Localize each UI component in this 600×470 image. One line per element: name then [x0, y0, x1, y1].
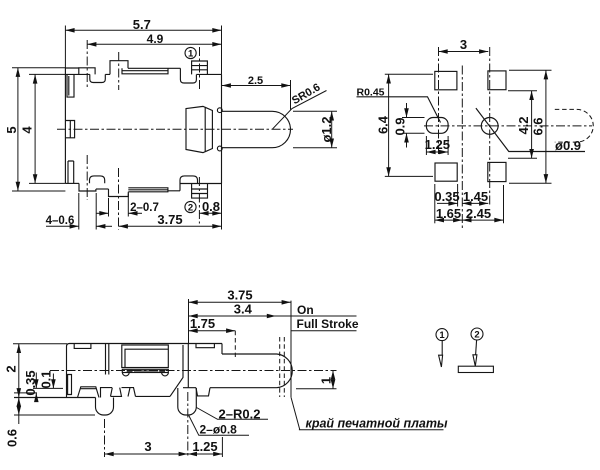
svg-text:4–0.6: 4–0.6 — [46, 215, 75, 227]
dim 3 side — [105, 453, 188, 455]
svg-text:2: 2 — [3, 365, 18, 372]
top seam right — [196, 344, 214, 348]
cover window — [122, 345, 169, 368]
mid seam vertical — [106, 344, 109, 375]
dim 0.8 — [221, 184, 223, 230]
dim 5.7 — [65, 26, 221, 75]
svg-text:SR0.6: SR0.6 — [290, 81, 322, 107]
svg-text:1.75: 1.75 — [190, 316, 215, 331]
slot under top lug — [90, 74, 106, 82]
dim 0.9 — [402, 118, 425, 134]
legend circled 2 — [458, 328, 493, 373]
foot A trapezoid — [78, 387, 100, 398]
bottom edge left — [65, 182, 79, 184]
centerline lug1 — [86, 40, 88, 88]
edge notch — [101, 388, 113, 398]
terminal 2 block — [192, 184, 208, 198]
side right edge — [221, 344, 223, 355]
round hole — [481, 118, 498, 135]
svg-text:5.7: 5.7 — [133, 17, 151, 32]
terminal 1 block — [192, 61, 208, 74]
side view centerline — [50, 371, 337, 458]
dim 1.25 side — [221, 437, 223, 457]
foot C — [128, 388, 136, 397]
top seam left — [74, 344, 91, 349]
bottom dome 2 — [180, 176, 198, 184]
side view texts — [3, 288, 448, 454]
bottom foot tab 2 — [109, 189, 129, 197]
top cover strip — [122, 68, 180, 74]
svg-text:1.65: 1.65 — [436, 206, 461, 221]
dim dia 1.2 — [293, 111, 337, 147]
svg-text:ø0.9: ø0.9 — [555, 138, 581, 153]
pin 1 — [96, 398, 114, 416]
dim 3.75 top view — [119, 225, 222, 227]
footprint texts — [357, 37, 582, 221]
bottom foot tab 1 — [79, 183, 96, 191]
svg-text:1: 1 — [188, 49, 194, 60]
centerline terminal 1 — [199, 47, 201, 91]
svg-text:ø1.2: ø1.2 — [319, 116, 334, 142]
centerline terminal 2 — [198, 177, 200, 224]
left inner slot middle — [66, 121, 75, 138]
svg-text:6.4: 6.4 — [376, 115, 391, 134]
dashed plunger projection — [555, 109, 593, 142]
svg-text:0.1: 0.1 — [39, 370, 54, 388]
svg-text:2: 2 — [188, 203, 193, 214]
plunger side view — [222, 354, 292, 388]
section divider — [187, 344, 189, 388]
body right edge — [221, 74, 223, 183]
diagonal corner — [170, 345, 183, 396]
svg-text:2–R0.2: 2–R0.2 — [219, 406, 261, 421]
svg-text:3: 3 — [144, 439, 151, 454]
left inner slot bottom — [68, 161, 74, 183]
dim 6.6 — [509, 70, 552, 183]
svg-text:1.25: 1.25 — [425, 137, 450, 152]
svg-text:5: 5 — [4, 126, 19, 133]
centerline bottom lug / 3.75 extension — [118, 168, 120, 230]
svg-text:1: 1 — [319, 377, 334, 384]
footprint centerlines — [424, 47, 592, 228]
side bottom left — [14, 397, 96, 399]
svg-text:0.35: 0.35 — [434, 189, 459, 204]
dim 0.35 footprint — [457, 184, 459, 207]
svg-text:0.8: 0.8 — [202, 199, 220, 214]
svg-text:3.75: 3.75 — [227, 288, 252, 303]
leader dia 0.9 — [476, 108, 585, 151]
circled 1 top view — [185, 47, 196, 58]
svg-text:1.25: 1.25 — [192, 439, 217, 454]
svg-text:4: 4 — [20, 126, 35, 134]
bottom edge segment 2 — [168, 184, 180, 191]
svg-text:2–ø0.8: 2–ø0.8 — [200, 423, 238, 437]
svg-text:0.35: 0.35 — [23, 370, 38, 395]
pad bottom-right — [488, 162, 506, 181]
dim 4 — [29, 74, 65, 183]
slot near terminal 1 — [180, 75, 196, 84]
bottom edge segment — [96, 188, 109, 190]
pad top-right — [488, 71, 506, 90]
dim 1.75 side — [189, 330, 236, 332]
svg-text:2: 2 — [474, 330, 479, 341]
dim 3 footprint — [439, 51, 489, 53]
mounting lug top-left — [79, 68, 95, 75]
dim 0.35 side — [14, 388, 63, 393]
dim 2.45 — [503, 185, 505, 223]
foot B — [111, 388, 131, 397]
dim 1.45 — [462, 202, 488, 204]
svg-text:6.6: 6.6 — [531, 117, 546, 135]
svg-text:On: On — [297, 303, 314, 317]
svg-text:1: 1 — [439, 330, 445, 341]
svg-text:край печатной платы: край печатной платы — [306, 416, 448, 430]
centerline lug2 — [118, 52, 120, 90]
svg-text:2.45: 2.45 — [466, 206, 491, 221]
leader R0.45 — [357, 97, 441, 123]
contact bumps — [122, 373, 168, 376]
side body left edge — [66, 347, 68, 398]
leader SR0.6 — [273, 91, 327, 130]
legend circled 1 — [436, 329, 448, 367]
svg-text:3.75: 3.75 — [157, 212, 182, 227]
pin1 centerline — [104, 419, 106, 457]
bottom dome contact — [90, 176, 105, 183]
dim 5 — [12, 68, 66, 191]
centerline horizontal top view — [57, 40, 293, 230]
dim 4.2 — [508, 91, 537, 158]
leader pcb edge — [291, 397, 444, 429]
svg-text:2.5: 2.5 — [248, 75, 263, 87]
svg-text:3: 3 — [460, 37, 467, 52]
dim 0.6 side — [14, 414, 95, 416]
svg-text:Full Stroke: Full Stroke — [297, 317, 359, 331]
left slot side view — [68, 375, 72, 395]
svg-text:4.9: 4.9 — [147, 32, 164, 46]
svg-text:0.9: 0.9 — [393, 117, 408, 135]
dim 3.75 side — [188, 299, 190, 344]
top view inner top edge — [65, 73, 110, 75]
svg-text:R0.45: R0.45 — [357, 87, 385, 99]
dim 1 side — [296, 388, 337, 390]
dim 0.1 side — [52, 374, 54, 389]
pin 2 — [178, 388, 197, 415]
top edge right segment — [196, 73, 221, 75]
bottom cover strip — [128, 188, 168, 192]
top view body outline — [65, 68, 78, 183]
pad bottom-left — [435, 163, 457, 181]
bottom edge right — [180, 183, 222, 185]
svg-text:1.45: 1.45 — [463, 189, 488, 204]
dim 4-0.6 — [79, 193, 96, 230]
leader 2-dia0.8 — [189, 416, 249, 436]
plunger hook top — [217, 108, 222, 113]
plunger base cone — [186, 106, 212, 152]
mounting lug top second — [110, 61, 128, 75]
left inner slot top — [67, 74, 74, 97]
top edge step right — [179, 68, 181, 74]
pad top-left — [435, 71, 457, 89]
dim texts top view — [4, 17, 334, 227]
dim 6.4 — [385, 74, 433, 176]
svg-text:4.2: 4.2 — [516, 116, 531, 134]
svg-text:3.4: 3.4 — [234, 301, 253, 316]
dim 1.65 — [434, 184, 436, 223]
leader 2-R0.2 — [197, 408, 269, 420]
bottom edge mid — [136, 395, 171, 397]
centerline bottom tab1 — [86, 155, 88, 200]
svg-text:2–0.7: 2–0.7 — [130, 202, 159, 214]
legend smd pad — [458, 366, 493, 372]
pin2 centerline — [187, 392, 189, 457]
slot hole — [426, 118, 448, 134]
svg-text:0.6: 0.6 — [5, 429, 20, 447]
foot D — [183, 388, 222, 396]
dim 4.9 — [87, 43, 221, 45]
tip position dashed lines — [235, 331, 284, 397]
circled 2 top view — [185, 201, 196, 212]
contact band — [122, 369, 168, 372]
dim 2 side — [13, 343, 67, 345]
plunger shaft top view — [222, 111, 291, 147]
dim 3.4 side — [189, 315, 277, 317]
dim 2-0.7 — [109, 194, 129, 217]
side body top edge — [67, 344, 223, 347]
plunger hook bottom — [217, 146, 222, 151]
dim 2.5 — [290, 80, 292, 110]
dim 1.25 footprint — [426, 136, 448, 155]
pcb edge line — [290, 301, 292, 398]
